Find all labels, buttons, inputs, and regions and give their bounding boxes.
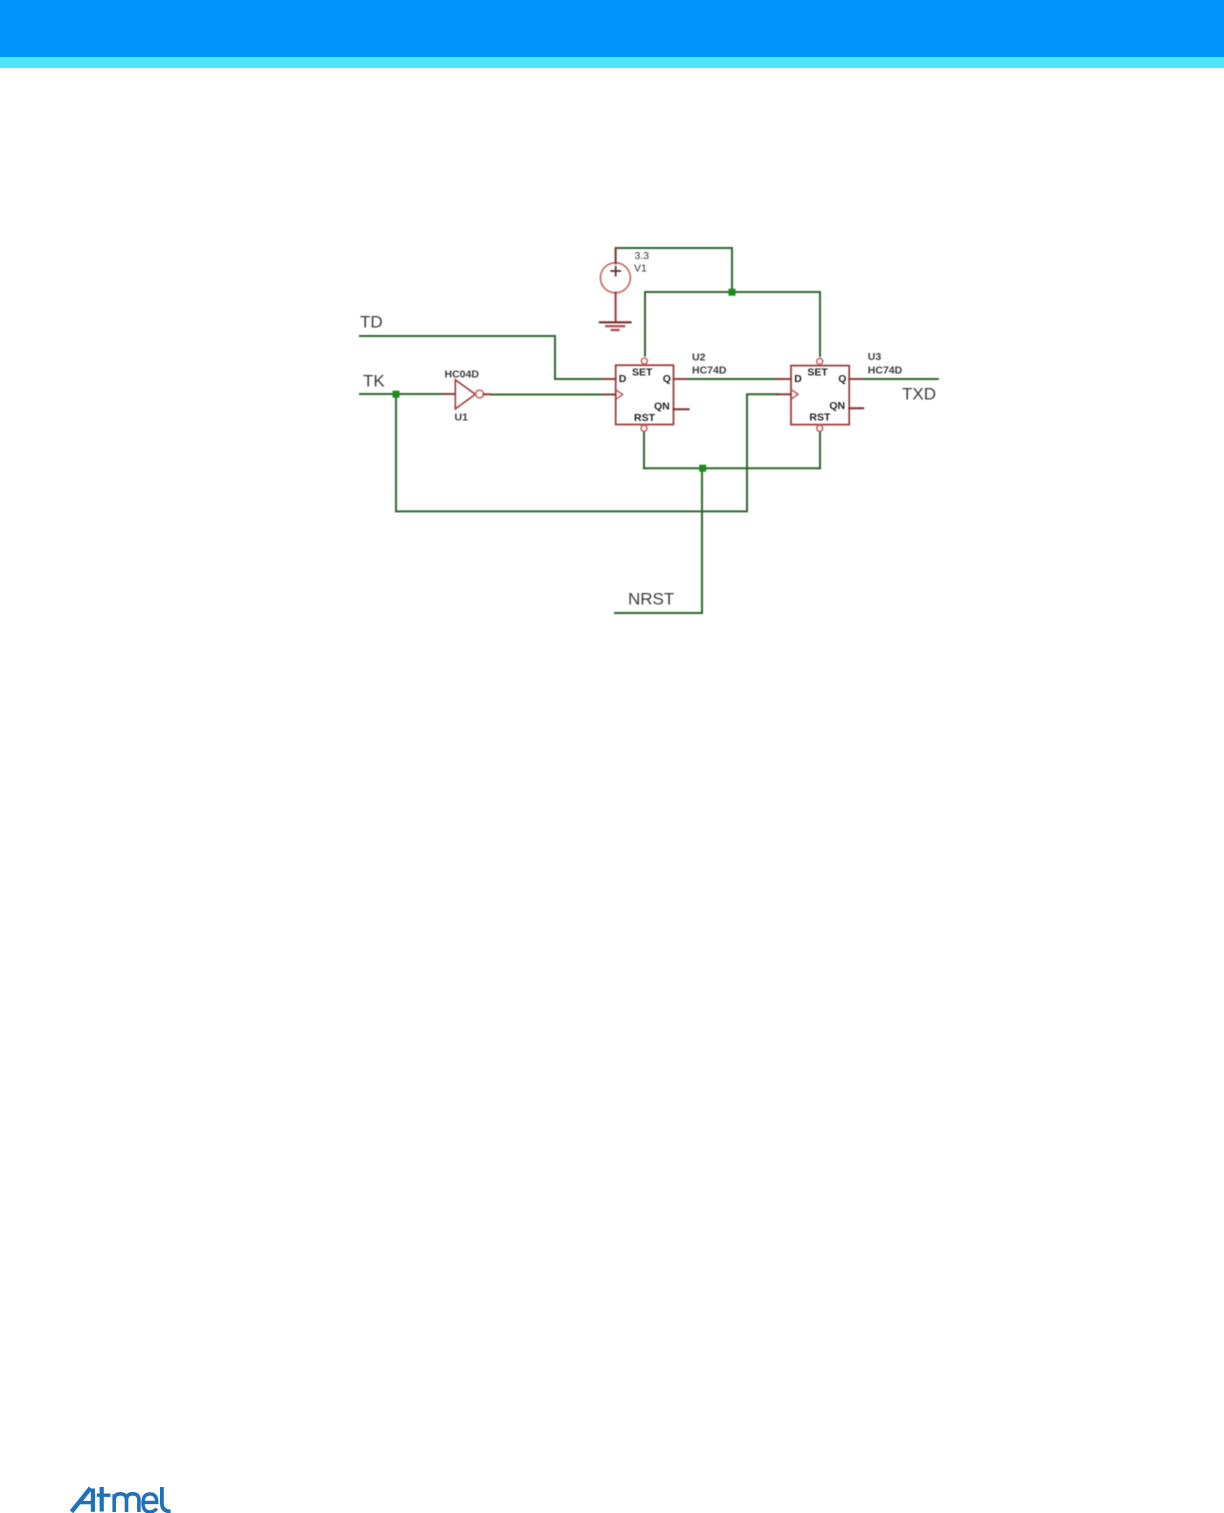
svg-text:D: D xyxy=(794,373,802,385)
logo A crossbar xyxy=(80,1501,93,1504)
wire net TK xyxy=(360,393,445,395)
wire U3 RST drop xyxy=(819,432,821,469)
wire SET rail xyxy=(645,291,820,293)
U1 input pin stub xyxy=(444,393,455,395)
U1 output bubble xyxy=(476,390,484,398)
svg-text:QN: QN xyxy=(654,401,670,413)
U3 clock triangle xyxy=(792,390,798,399)
wire net TD xyxy=(360,336,605,379)
U1 output pin stub xyxy=(484,393,491,395)
logo m xyxy=(114,1494,139,1512)
U2 SET pin circle xyxy=(641,358,647,364)
wire U2 SET drop xyxy=(644,292,646,356)
svg-text:3.3: 3.3 xyxy=(635,250,650,262)
wire U2 RST drop xyxy=(643,432,645,469)
wire U1 output to U2 clock xyxy=(491,394,605,396)
V1 plus sign xyxy=(611,267,620,276)
junction node NRST/RST rail xyxy=(699,465,706,472)
wire U3 SET drop xyxy=(819,292,821,356)
svg-text:Q: Q xyxy=(838,373,846,385)
U3 Q pin stub xyxy=(849,378,863,380)
U2 D pin stub xyxy=(604,378,616,380)
flip-flop U3 body xyxy=(791,366,849,425)
logo A right stem xyxy=(91,1489,95,1512)
U3 RST pin circle xyxy=(817,425,823,431)
U2 RST pin circle xyxy=(641,425,647,431)
svg-text:RST: RST xyxy=(634,412,656,424)
wire TK feedback to U3 clock xyxy=(396,394,778,511)
U2 CLK pin stub xyxy=(604,394,616,396)
U2 clock triangle xyxy=(617,390,623,399)
wire NRST riser xyxy=(701,468,703,613)
svg-text:SET: SET xyxy=(807,367,828,379)
V1 top pin stub xyxy=(615,249,617,263)
svg-text:HC74D: HC74D xyxy=(868,365,903,377)
svg-text:SET: SET xyxy=(632,366,653,378)
Atmel logo xyxy=(72,1487,171,1512)
svg-text:V1: V1 xyxy=(634,263,647,275)
svg-text:TD: TD xyxy=(360,313,383,332)
logo A diagonal xyxy=(72,1488,91,1512)
V1 bottom pin stub xyxy=(615,293,617,322)
flip-flop U2 body xyxy=(616,365,674,424)
U3 D pin stub xyxy=(777,378,791,380)
header blue bar xyxy=(0,0,1224,57)
ground symbol xyxy=(600,322,631,330)
header cyan strip xyxy=(0,57,1224,68)
wire RST rail xyxy=(644,467,820,469)
svg-text:NRST: NRST xyxy=(628,590,674,609)
U3 SET pin circle xyxy=(817,358,823,364)
junction node VCC rail xyxy=(729,289,736,296)
svg-text:TK: TK xyxy=(363,372,385,391)
svg-text:D: D xyxy=(619,373,627,385)
inverter U1 xyxy=(455,380,475,409)
U3 QN pin stub xyxy=(849,407,863,409)
voltage source V1 xyxy=(600,263,630,293)
junction node TK xyxy=(393,391,400,398)
logo l xyxy=(162,1487,171,1511)
svg-text:U3: U3 xyxy=(868,351,882,363)
svg-text:TXD: TXD xyxy=(902,385,936,404)
logo t stem xyxy=(100,1487,104,1512)
U3 CLK pin stub xyxy=(777,393,791,395)
wire NRST lead xyxy=(615,612,702,614)
logo e xyxy=(143,1494,157,1512)
U2 QN pin stub xyxy=(674,408,689,410)
svg-text:RST: RST xyxy=(809,412,831,424)
svg-text:Q: Q xyxy=(663,373,671,385)
svg-text:HC04D: HC04D xyxy=(445,369,480,381)
wire U2 Q to U3 D xyxy=(686,378,778,380)
svg-text:QN: QN xyxy=(829,400,845,412)
svg-text:HC74D: HC74D xyxy=(692,365,727,377)
svg-text:U1: U1 xyxy=(455,412,469,424)
svg-text:U2: U2 xyxy=(692,351,706,363)
U2 Q pin stub xyxy=(674,378,688,380)
wire V1 plus to VCC rail xyxy=(616,248,732,289)
logo t crossbar xyxy=(97,1493,111,1496)
wire U3 Q to TXD xyxy=(862,378,938,380)
